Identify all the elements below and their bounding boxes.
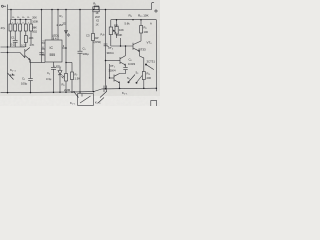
potentiometer RP1 bbox=[109, 20, 116, 46]
svg-text:C3: C3 bbox=[86, 34, 90, 38]
svg-text:R₈: R₈ bbox=[144, 26, 147, 30]
svg-text:10Ω: 10Ω bbox=[32, 30, 37, 34]
capacitor C2b line bbox=[28, 60, 33, 93]
svg-text:0.22: 0.22 bbox=[21, 43, 27, 47]
svg-text:R₅: R₅ bbox=[93, 2, 96, 6]
svg-text:8 4: 8 4 bbox=[53, 37, 57, 41]
resistor R5 on rail bbox=[93, 7, 99, 12]
svg-text:100K: 100K bbox=[116, 33, 122, 37]
relay contact K1-3 bbox=[98, 86, 107, 104]
switch S3 bbox=[136, 75, 143, 83]
svg-text:RP₁: RP₁ bbox=[114, 24, 119, 28]
svg-text:5.6k: 5.6k bbox=[125, 22, 131, 26]
transistor VT1 bbox=[25, 48, 30, 63]
switch S2 bbox=[128, 75, 135, 84]
svg-text:2.2M: 2.2M bbox=[64, 88, 71, 92]
capacitor C6 bbox=[120, 65, 128, 74]
resistor R8 bbox=[140, 20, 143, 41]
svg-text:K₁₋₃: K₁₋₃ bbox=[95, 101, 100, 105]
svg-text:R₇: R₇ bbox=[75, 73, 78, 77]
plug bottom right bbox=[151, 101, 157, 106]
pin 8 wire bbox=[51, 10, 53, 41]
svg-text:2W: 2W bbox=[95, 36, 99, 40]
wire drop to second rail left bbox=[10, 10, 12, 20]
svg-text:S₃: S₃ bbox=[136, 71, 139, 75]
svg-text:1K: 1K bbox=[96, 12, 99, 15]
wire bottom rail bbox=[1, 88, 157, 93]
junction dots bbox=[7, 9, 157, 94]
resistor R6 bbox=[65, 10, 68, 93]
wire VT3 collector node drop bbox=[120, 38, 122, 46]
svg-text:R₆: R₆ bbox=[62, 83, 65, 87]
resistor R2 bbox=[14, 20, 17, 41]
svg-text:K₁₋₁: K₁₋₁ bbox=[70, 101, 75, 105]
svg-text:3DK4: 3DK4 bbox=[109, 69, 116, 73]
paper background bbox=[0, 0, 160, 110]
svg-text:C₅: C₅ bbox=[83, 47, 86, 51]
pin 4 wire bbox=[57, 10, 59, 41]
svg-text:R₃: R₃ bbox=[22, 17, 25, 19]
svg-text:0.02: 0.02 bbox=[11, 43, 17, 47]
wire emitter bus bbox=[30, 62, 45, 64]
svg-text:100μ: 100μ bbox=[21, 82, 28, 86]
svg-text:C₆: C₆ bbox=[129, 58, 132, 62]
svg-text:47μ: 47μ bbox=[1, 26, 6, 30]
svg-text:200: 200 bbox=[147, 76, 152, 80]
text labels bbox=[1, 2, 156, 105]
svg-text:1X: 1X bbox=[96, 23, 99, 26]
pin 2 stub bbox=[42, 54, 46, 56]
svg-text:C1: C1 bbox=[11, 36, 15, 40]
transistor VT6 bbox=[133, 41, 141, 56]
svg-text:555: 555 bbox=[50, 53, 56, 57]
op-amp U1 IC 555 box bbox=[45, 40, 62, 62]
zener VD1 line bbox=[104, 10, 109, 89]
svg-text:S₂: S₂ bbox=[127, 76, 130, 80]
svg-text:P₁b: P₁b bbox=[101, 34, 106, 37]
svg-text:47K: 47K bbox=[30, 43, 35, 47]
svg-text:3.3μ: 3.3μ bbox=[46, 77, 52, 81]
svg-text:R₁: R₁ bbox=[12, 17, 15, 19]
svg-text:R₁₁: R₁₁ bbox=[147, 72, 151, 76]
svg-text:20K: 20K bbox=[32, 16, 37, 20]
svg-text:10K: 10K bbox=[119, 28, 124, 32]
terminal input top-left bbox=[1, 5, 6, 7]
resistor R1 bbox=[9, 20, 12, 48]
wire top rail bbox=[8, 9, 150, 11]
resistor R7 bbox=[71, 63, 74, 93]
svg-text:VT₃: VT₃ bbox=[108, 46, 114, 50]
pin 7 stub bbox=[42, 42, 46, 44]
svg-text:4.7k: 4.7k bbox=[10, 73, 16, 77]
svg-text:BT33: BT33 bbox=[139, 48, 147, 52]
resistor R4 bbox=[24, 20, 27, 48]
resistor R11 bbox=[142, 72, 145, 89]
wire VT3 collector up bbox=[125, 46, 127, 56]
svg-text:0.033: 0.033 bbox=[128, 62, 135, 66]
svg-text:100: 100 bbox=[144, 30, 149, 34]
svg-text:R₂: R₂ bbox=[17, 17, 20, 19]
pin 3 stub bbox=[62, 47, 66, 49]
wire input lower bbox=[1, 53, 25, 58]
wire VT6 emitter to R11 bbox=[140, 56, 144, 72]
svg-text:2CP: 2CP bbox=[95, 16, 100, 19]
wire second rail left bbox=[11, 19, 32, 21]
svg-text:R₄: R₄ bbox=[60, 14, 63, 18]
svg-text:A: A bbox=[150, 22, 152, 26]
svg-text:1.5K: 1.5K bbox=[75, 77, 81, 81]
capacitor C3 bbox=[39, 53, 43, 55]
svg-text:K₁₋₂: K₁₋₂ bbox=[10, 68, 17, 72]
wire zener branch bbox=[92, 12, 95, 92]
svg-text:R₁₀ 10K: R₁₀ 10K bbox=[138, 14, 149, 18]
wire right edge vertical bbox=[155, 20, 157, 89]
transistor VT5 bbox=[110, 74, 120, 89]
relay contact K1-2 bbox=[8, 73, 14, 80]
wire IC left pin column bbox=[41, 10, 43, 63]
wire rail3 end tick bbox=[155, 88, 157, 91]
svg-text:IC: IC bbox=[50, 46, 54, 50]
capacitor C2 electrolytic bbox=[30, 20, 33, 45]
svg-text:130μ: 130μ bbox=[83, 52, 90, 56]
svg-text:VT₅: VT₅ bbox=[110, 64, 116, 68]
resistor R7b bbox=[115, 20, 118, 38]
svg-text:R₄: R₄ bbox=[27, 17, 30, 19]
transistor VT3 bbox=[106, 56, 126, 65]
svg-text:100K: 100K bbox=[32, 20, 38, 24]
LED LED1 bbox=[65, 31, 70, 37]
wire left main vertical bbox=[7, 5, 9, 93]
switch S1 bbox=[145, 64, 154, 70]
fuse on top rail bbox=[94, 6, 99, 10]
svg-text:C₄: C₄ bbox=[47, 71, 50, 75]
wire second rail right bbox=[111, 19, 157, 21]
svg-text:VT₆: VT₆ bbox=[147, 41, 153, 45]
svg-text:10K: 10K bbox=[29, 36, 34, 40]
svg-text:(2CW): (2CW) bbox=[94, 40, 102, 44]
pin 6 stub bbox=[42, 48, 46, 50]
wire pin3 node bbox=[66, 62, 72, 64]
svg-text:C₂: C₂ bbox=[22, 77, 25, 81]
hook terminal top right bbox=[149, 2, 157, 12]
wire input upper bbox=[1, 46, 25, 48]
LED LED2 bbox=[58, 68, 64, 93]
resistor R3 bbox=[19, 20, 22, 48]
svg-text:+: + bbox=[34, 26, 36, 30]
svg-text:K₂₋₁: K₂₋₁ bbox=[122, 91, 127, 95]
capacitor C5 bbox=[78, 10, 83, 93]
svg-text:3D: 3D bbox=[63, 22, 66, 26]
svg-text:LED₂: LED₂ bbox=[55, 65, 62, 69]
wire VT6 base bus bbox=[111, 45, 133, 47]
capacitor C1 bbox=[13, 40, 18, 47]
svg-text:3CT31: 3CT31 bbox=[147, 60, 156, 64]
relay K1 coil box bbox=[74, 92, 94, 105]
svg-text:3DK4: 3DK4 bbox=[107, 51, 114, 55]
wire VT5 base branch bbox=[109, 64, 111, 78]
pin 1 stub with capacitor C4 bbox=[51, 62, 56, 92]
